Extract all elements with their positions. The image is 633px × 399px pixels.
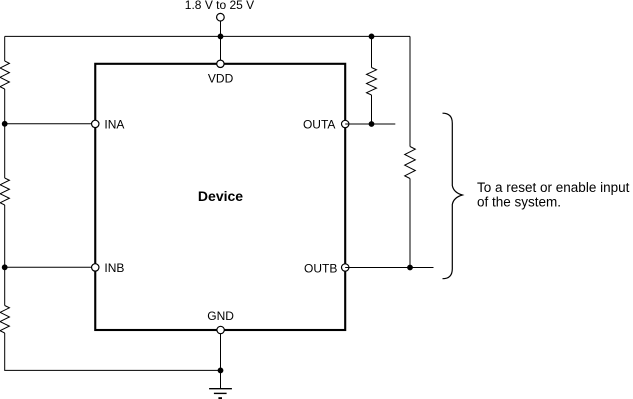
pin VDD xyxy=(217,60,224,67)
svg-text:OUTA: OUTA xyxy=(303,117,335,131)
svg-text:1.8 V to 25 V: 1.8 V to 25 V xyxy=(185,0,254,12)
brace xyxy=(443,113,463,279)
wire R1 to INA node xyxy=(4,89,6,178)
svg-text:VDD: VDD xyxy=(208,71,234,85)
wire node to pin INB xyxy=(5,266,92,268)
svg-text:Device: Device xyxy=(198,188,243,204)
pin GND xyxy=(217,326,224,333)
svg-text:To a reset or enable input: To a reset or enable input xyxy=(477,180,630,195)
junction ground node xyxy=(218,368,224,374)
wire R5 to OUTB node xyxy=(409,179,411,268)
wire supply to VDD rail xyxy=(220,21,222,36)
junction node INA xyxy=(2,121,8,127)
wire R4 to OUTA node xyxy=(371,95,373,124)
pin INA xyxy=(92,120,99,127)
resistor R1 (top left) xyxy=(0,61,9,89)
resistor R3 (bottom left) xyxy=(0,306,9,334)
svg-text:INA: INA xyxy=(104,117,124,131)
wire left column top segment xyxy=(4,36,6,61)
wire R3 down and across to ground node xyxy=(5,333,221,370)
junction VDD rail / R4 xyxy=(369,34,375,40)
svg-text:INB: INB xyxy=(104,261,124,275)
wire R2 to INB node xyxy=(4,205,6,306)
wire OUTB to brace xyxy=(345,267,433,269)
terminal supply xyxy=(217,13,225,21)
wire GND pin to ground xyxy=(220,334,222,389)
wire node to pin INA xyxy=(5,123,92,125)
wire OUTA stub xyxy=(345,123,395,125)
resistor R4 (pull-up OUTA) xyxy=(367,68,377,96)
junction node OUTB xyxy=(407,265,413,271)
junction VDD rail / supply xyxy=(218,34,224,40)
pin OUTA xyxy=(342,120,349,127)
svg-text:OUTB: OUTB xyxy=(304,261,337,275)
wire VDD rail xyxy=(5,35,410,37)
junction node OUTA xyxy=(369,121,375,127)
svg-text:GND: GND xyxy=(207,309,234,323)
wire rail corner down to R5 xyxy=(409,36,411,146)
pin OUTB xyxy=(342,264,349,271)
resistor R2 (middle left) xyxy=(0,178,9,205)
svg-text:of the system.: of the system. xyxy=(477,195,561,210)
junction node INB xyxy=(2,264,8,270)
device U1 box xyxy=(95,64,345,330)
ground symbol xyxy=(209,389,232,399)
wire rail to R4 xyxy=(371,36,373,67)
wire VDD rail to VDD pin xyxy=(220,36,222,60)
resistor R5 (pull-up OUTB) xyxy=(405,147,416,179)
pin INB xyxy=(92,264,99,271)
